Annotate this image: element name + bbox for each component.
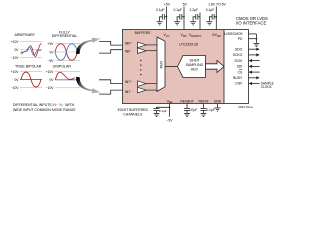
svg-text:−10V: −10V xyxy=(11,56,20,60)
svg-text:ARBITRARY: ARBITRARY xyxy=(15,33,36,37)
svg-text:IN7⁺: IN7⁺ xyxy=(125,80,132,84)
svg-text:0V: 0V xyxy=(14,78,19,82)
svg-text:WIDE INPUT COMMON MODE RANGE: WIDE INPUT COMMON MODE RANGE xyxy=(13,108,76,112)
svg-text:CLOCK: CLOCK xyxy=(261,85,273,89)
svg-text:EIGHT BUFFERED: EIGHT BUFFERED xyxy=(118,108,149,112)
svg-text:MUX: MUX xyxy=(159,60,163,68)
svg-text:0.1μF: 0.1μF xyxy=(159,109,167,113)
svg-text:CNV: CNV xyxy=(235,82,243,86)
svg-text:+10V: +10V xyxy=(46,70,55,74)
svg-text:CHANNELS: CHANNELS xyxy=(123,113,143,117)
svg-text:BUFFERS: BUFFERS xyxy=(135,31,152,35)
svg-text:DIFFERENTIAL: DIFFERENTIAL xyxy=(52,34,78,38)
svg-text:SCKO: SCKO xyxy=(233,53,243,57)
svg-text:0.1μF: 0.1μF xyxy=(206,8,215,12)
svg-text:GND: GND xyxy=(214,99,222,103)
svg-text:IN0⁺: IN0⁺ xyxy=(125,41,132,45)
svg-text:5V: 5V xyxy=(183,2,188,6)
svg-text:UNIPOLAR: UNIPOLAR xyxy=(53,65,72,69)
svg-text:−10V: −10V xyxy=(11,86,20,90)
svg-text:REFIN: REFIN xyxy=(199,99,210,103)
svg-text:IN0⁻: IN0⁻ xyxy=(125,50,132,54)
svg-text:I/O INTERFACE: I/O INTERFACE xyxy=(236,21,266,26)
svg-text:0V: 0V xyxy=(49,50,54,54)
svg-text:−5V: −5V xyxy=(48,59,55,63)
svg-text:47μF: 47μF xyxy=(190,108,197,112)
svg-text:−5V: −5V xyxy=(166,119,173,123)
svg-text:BUSY: BUSY xyxy=(233,76,243,80)
svg-text:0V: 0V xyxy=(14,48,19,52)
svg-text:+5V: +5V xyxy=(164,2,171,6)
svg-text:2.2μF: 2.2μF xyxy=(190,8,199,12)
svg-text:IN7⁻: IN7⁻ xyxy=(125,90,132,94)
svg-text:+5V: +5V xyxy=(48,42,55,46)
svg-text:DIFFERENTIAL INPUTS IN⁺ IN⁻ WI: DIFFERENTIAL INPUTS IN⁺ IN⁻ WITH xyxy=(13,103,75,107)
svg-text:TRUE BIPOLAR: TRUE BIPOLAR xyxy=(15,65,42,69)
svg-text:0V: 0V xyxy=(49,78,54,82)
svg-text:+10V: +10V xyxy=(11,40,20,44)
svg-text:0.1μF: 0.1μF xyxy=(207,108,215,112)
svg-text:−10V: −10V xyxy=(46,86,55,90)
svg-text:LVDS/CMOS: LVDS/CMOS xyxy=(224,32,242,36)
svg-text:+10V: +10V xyxy=(11,70,20,74)
svg-text:CS: CS xyxy=(238,70,243,74)
svg-text:0.1μF: 0.1μF xyxy=(156,8,165,12)
svg-text:SAMPLING: SAMPLING xyxy=(186,63,204,67)
svg-text:SDO: SDO xyxy=(235,47,243,51)
svg-text:PD: PD xyxy=(238,37,243,41)
svg-text:1.8V TO 5V: 1.8V TO 5V xyxy=(208,2,226,6)
svg-text:0.1μF: 0.1μF xyxy=(174,8,183,12)
svg-text:SCKI: SCKI xyxy=(234,59,242,63)
svg-text:SDI: SDI xyxy=(237,65,243,69)
svg-text:REFBUF: REFBUF xyxy=(180,99,193,103)
svg-text:18-BIT: 18-BIT xyxy=(189,59,199,63)
svg-text:2333 TA1a: 2333 TA1a xyxy=(238,105,253,109)
svg-text:LTC2333-18: LTC2333-18 xyxy=(179,43,198,47)
svg-text:ADC: ADC xyxy=(191,68,199,72)
